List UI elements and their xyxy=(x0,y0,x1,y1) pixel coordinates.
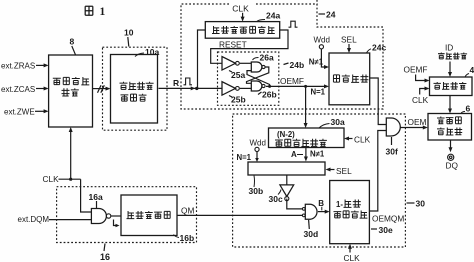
dashed stub above 24 notch xyxy=(316,0,318,5)
label 16b xyxy=(174,233,195,243)
svg-text:ext.ZCAS: ext.ZCAS xyxy=(1,85,35,94)
label 8 xyxy=(70,37,76,55)
svg-text:RESET: RESET xyxy=(219,40,247,50)
wire 30c to AND 30d xyxy=(287,199,303,209)
svg-text:10: 10 xyxy=(124,28,134,38)
wire 24c output to gate 30f xyxy=(370,78,387,125)
svg-text:30a: 30a xyxy=(331,117,345,127)
wire OEMF down into 30a xyxy=(304,86,308,128)
svg-text:SEL: SEL xyxy=(341,35,357,45)
svg-text:16: 16 xyxy=(100,252,110,262)
dashed block 24b latch xyxy=(218,52,279,105)
wire QM from pulse generator 16b to AND 30d xyxy=(177,214,302,216)
svg-text:SEL: SEL xyxy=(336,166,352,176)
wire 25b to NAND 26b xyxy=(240,87,252,89)
svg-text:30: 30 xyxy=(416,199,426,209)
NAND gate 16a xyxy=(91,209,110,224)
svg-text:ext.DQM: ext.DQM xyxy=(18,215,50,224)
svg-text:26b: 26b xyxy=(262,89,277,99)
svg-text:N=1: N=1 xyxy=(311,88,326,97)
wire bus block 8 to decoder 10a with slash marks xyxy=(93,85,111,93)
AND gate 30f xyxy=(386,118,400,136)
wire OEMF stub into read circuit xyxy=(416,75,430,83)
svg-text:30d: 30d xyxy=(304,229,319,239)
svg-text:40: 40 xyxy=(470,65,474,75)
svg-text:A: A xyxy=(291,150,297,159)
label N≠1 at 24c input xyxy=(309,58,324,67)
block 30e 1-clock shift circuit xyxy=(330,181,370,244)
svg-text:QM: QM xyxy=(181,205,194,215)
label 30d xyxy=(304,220,319,239)
label N=1 at 30b input xyxy=(237,153,252,162)
label CLK for 30e xyxy=(344,253,361,262)
label 40 clipped at edge xyxy=(465,65,474,77)
label SEL for 24c xyxy=(341,35,357,45)
wire read circuit to output buffer xyxy=(448,96,452,114)
svg-text:24a: 24a xyxy=(266,11,280,21)
label A xyxy=(291,150,303,159)
svg-text:B: B xyxy=(318,199,324,208)
label 30 xyxy=(407,199,426,209)
svg-text:24b: 24b xyxy=(290,60,305,70)
label 25b xyxy=(229,95,246,105)
block 16b pulse generator 脉冲发生器 xyxy=(121,195,177,236)
wire ext.ZCAS into block 8 xyxy=(36,87,49,91)
wire B from 30d to 30e xyxy=(318,210,330,214)
wire SEL into 24c xyxy=(347,44,351,53)
svg-text:OEMF: OEMF xyxy=(280,76,304,86)
svg-text:OEMF: OEMF xyxy=(404,65,428,75)
label CLK for 30a xyxy=(354,134,371,144)
svg-text:24c: 24c xyxy=(372,42,386,52)
label 30c xyxy=(269,190,283,205)
svg-text:CLK: CLK xyxy=(344,253,361,262)
power Wdd for 24c xyxy=(314,36,330,49)
block 30b selector bar xyxy=(248,162,325,175)
svg-text:N≠1: N≠1 xyxy=(310,150,325,159)
wire ext.DQM into NAND 16a xyxy=(49,219,91,221)
label OEM xyxy=(408,117,427,127)
label CLK bottom left xyxy=(43,174,60,184)
svg-text:1-: 1- xyxy=(336,200,343,209)
label ID 来自阵列 from array xyxy=(438,43,467,59)
label 24b xyxy=(284,60,305,70)
svg-text:OEMQM: OEMQM xyxy=(372,214,404,224)
label SEL for 30b xyxy=(336,166,352,176)
label OEMF xyxy=(280,76,304,86)
label 16a xyxy=(89,192,103,208)
wire output buffer to DQ pad xyxy=(449,140,453,152)
wire Wdd to 24c N≠1 input xyxy=(321,49,329,69)
svg-text:30c: 30c xyxy=(269,194,283,204)
svg-text:N=1: N=1 xyxy=(237,153,252,162)
AND gate 30d xyxy=(302,204,317,219)
label 10 xyxy=(124,28,134,47)
label 30a xyxy=(319,117,345,128)
label ext.DQM xyxy=(18,215,50,224)
svg-text:ext.ZRAS: ext.ZRAS xyxy=(1,62,35,71)
svg-text:25b: 25b xyxy=(231,95,246,105)
dashed block 16 pulse generator unit xyxy=(57,187,197,243)
wire A from 30a to selector 30b xyxy=(304,148,308,162)
svg-text:CLK: CLK xyxy=(43,174,60,184)
NAND gate 26b xyxy=(251,81,265,91)
wire 30b to inverter 30c xyxy=(286,175,288,185)
svg-text:ID: ID xyxy=(445,43,453,53)
pulse symbol on R line xyxy=(184,78,193,85)
svg-text:N≠1: N≠1 xyxy=(309,58,324,67)
svg-text:24: 24 xyxy=(326,10,336,20)
label 24 xyxy=(319,10,336,20)
label DQ xyxy=(446,161,459,171)
dashed block 30 outline xyxy=(233,114,406,247)
label CLK top xyxy=(232,3,249,13)
label ext.ZCAS xyxy=(1,85,35,94)
wire Wdd stub into 30b xyxy=(255,152,259,163)
label OEMF at read circuit xyxy=(404,65,428,75)
dashed block 10 read command decoder xyxy=(103,47,168,130)
node OEMF junction to shift circuit xyxy=(304,85,307,88)
svg-text:R: R xyxy=(173,78,179,88)
svg-text:26a: 26a xyxy=(260,52,274,62)
label OEMQM xyxy=(372,214,404,224)
wire 16a output to 16b xyxy=(111,215,121,217)
svg-text:30f: 30f xyxy=(386,147,398,157)
block 40 read circuit 读出电路 xyxy=(430,77,473,96)
wire CLK stub into 30a xyxy=(344,137,353,141)
wire CLK into 30e bottom xyxy=(348,244,352,253)
inverter 25b xyxy=(222,82,239,96)
svg-text:10a: 10a xyxy=(145,47,159,57)
wire feedback 26a output to 26b input xyxy=(247,67,269,83)
svg-text:ext.ZWE: ext.ZWE xyxy=(4,107,35,116)
label ext.ZWE xyxy=(4,107,35,116)
svg-text:1: 1 xyxy=(100,6,106,18)
wire ext.ZWE into block 8 xyxy=(35,109,49,113)
wire feedback 26b output to 26a input xyxy=(247,71,270,87)
pulse symbol at 24a output xyxy=(289,21,298,27)
label 24c xyxy=(367,42,387,53)
svg-text:Wdd: Wdd xyxy=(250,138,266,147)
block 10a decoder 读出指令解码器 xyxy=(111,55,158,124)
node junction R to counter xyxy=(191,86,199,90)
label RESET xyxy=(219,40,247,50)
wire OEM from 30f to output buffer xyxy=(400,126,428,130)
label 16 xyxy=(100,244,110,262)
label 25a xyxy=(229,70,245,80)
svg-text:6: 6 xyxy=(466,104,471,114)
svg-text:OEM: OEM xyxy=(408,117,427,127)
label 24a xyxy=(257,11,281,22)
wire OEMF from latch to selection circuit 24c xyxy=(266,84,329,88)
label 30e xyxy=(371,225,393,235)
wire ID into read circuit xyxy=(448,62,452,78)
svg-text:30e: 30e xyxy=(379,225,393,235)
NAND gate 26a xyxy=(251,62,265,72)
label 30b xyxy=(249,176,264,196)
wire OEMQM from 30e to gate 30f xyxy=(369,131,386,212)
label ext.ZRAS xyxy=(1,62,35,71)
label 26a xyxy=(253,52,274,62)
label CLK at read circuit xyxy=(412,95,429,105)
power Wdd for 30b xyxy=(250,138,266,151)
label QM xyxy=(181,205,194,215)
svg-text:(N-2): (N-2) xyxy=(277,130,295,139)
svg-text:16a: 16a xyxy=(89,192,103,202)
figure title 图 1 xyxy=(85,6,105,18)
svg-text:CLK: CLK xyxy=(232,3,249,13)
block 24c selection circuit 选择电路 xyxy=(329,53,370,105)
dashed block 24 outline xyxy=(181,4,383,109)
pad DQ terminal xyxy=(448,154,454,160)
block 6 output buffer circuit 输出缓冲电路 xyxy=(428,114,472,141)
wire 25a to NAND 26a xyxy=(240,62,252,64)
svg-text:25a: 25a xyxy=(231,70,245,80)
label 26b xyxy=(258,89,277,99)
block 8 control buffer circuit 控制缓冲电路 xyxy=(49,55,93,127)
wire 24a output RESET loop to inverter 25a xyxy=(211,30,288,63)
block 30a (N-2) clock shift circuit xyxy=(269,128,345,148)
label 10a xyxy=(135,47,159,57)
svg-text:DQ: DQ xyxy=(446,161,459,171)
wire CLK stub into read circuit xyxy=(420,87,430,95)
wire CLK into 24a xyxy=(241,13,245,22)
label N≠1 at 30b input xyxy=(310,150,325,159)
wire CLK net to block 8 and NAND 16a xyxy=(59,127,92,212)
wire R from decoder to latch input xyxy=(159,87,223,89)
label N=1 at 24c input xyxy=(311,88,326,97)
label B xyxy=(318,199,324,211)
inverter 25a xyxy=(222,57,239,71)
node 26b output junction xyxy=(268,85,271,88)
wire R up into counter 24a xyxy=(198,30,206,88)
svg-text:CLK: CLK xyxy=(354,134,371,144)
svg-text:Wdd: Wdd xyxy=(314,36,330,45)
svg-text:8: 8 xyxy=(70,37,75,47)
svg-text:16b: 16b xyxy=(180,233,195,243)
svg-text:30b: 30b xyxy=(249,186,264,196)
label R xyxy=(173,78,179,88)
wire ext.ZRAS into block 8 xyxy=(36,63,49,67)
label 30f xyxy=(386,137,398,157)
pulse symbol at 16a output xyxy=(114,220,120,228)
block 24a burst length counter 脉冲串长度计数 xyxy=(205,22,279,39)
inverter 30c down-pointing xyxy=(280,185,294,201)
label 6 output buffer xyxy=(461,104,471,114)
svg-text:CLK: CLK xyxy=(412,95,429,105)
wire SEL stub into 30b xyxy=(326,168,335,172)
